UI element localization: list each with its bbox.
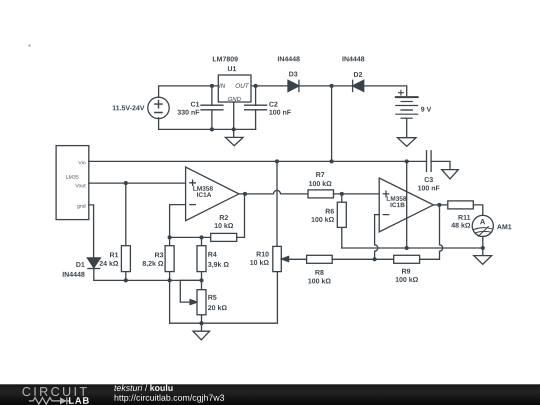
resistor R2 xyxy=(211,194,245,242)
junction R5 bottom xyxy=(199,321,203,325)
resistor R1 xyxy=(100,183,131,280)
diode D3 IN4448 xyxy=(278,56,300,91)
resistor R9 xyxy=(394,205,443,282)
wire Vin rail xyxy=(89,160,427,162)
junction C1 top xyxy=(210,84,214,88)
junction diodes node xyxy=(330,84,334,88)
wire op-amp supply vertical xyxy=(406,161,408,248)
junction supply down xyxy=(405,246,409,250)
ammeter AM1 xyxy=(472,215,511,236)
capacitor C2 xyxy=(245,86,291,129)
junction AM1 ground xyxy=(481,246,485,250)
junction C1 bottom xyxy=(210,127,214,131)
logo CIRCUIT xyxy=(22,387,86,396)
capacitor C3 xyxy=(418,151,439,191)
junction R4 top xyxy=(199,235,203,239)
junction rail op-amp supply xyxy=(405,159,409,163)
resistor R5 xyxy=(197,280,227,323)
wire battery to ground xyxy=(406,118,408,138)
wire bottom rail V1 to C2 xyxy=(159,118,256,130)
footer url xyxy=(115,394,225,402)
resistor R3 xyxy=(143,237,175,280)
potentiometer R5 wiper loop xyxy=(180,280,201,302)
resistor R7 xyxy=(308,172,379,198)
junction IC1B output xyxy=(437,203,441,207)
junction R3 top xyxy=(168,235,172,239)
junction IC1A output xyxy=(243,192,247,196)
wire IC1B inverting input down xyxy=(375,215,380,260)
ground bottom middle xyxy=(193,323,210,340)
wire U1 OUT to D3 xyxy=(251,85,288,87)
LM35 sensor box xyxy=(56,146,89,220)
ground under AM1 xyxy=(474,248,492,264)
junction R6 top xyxy=(340,192,344,196)
junction rail diodes xyxy=(330,159,334,163)
wire wiper to R8 xyxy=(289,258,307,260)
wire Vout to IC1A + input xyxy=(89,182,186,184)
junction R1 bottom xyxy=(124,278,128,282)
wire D1 to bottom wire xyxy=(93,269,95,281)
wire IC1B output xyxy=(433,204,447,206)
logo resistor-diode underline xyxy=(29,397,71,404)
resistor R10 potentiometer xyxy=(250,161,281,271)
junction rail to R10 xyxy=(275,159,279,163)
R5 wiper arrow xyxy=(190,300,197,305)
wire U1 GND lead xyxy=(233,102,235,129)
resistor R11 xyxy=(448,201,483,228)
battery 9V xyxy=(396,90,431,118)
wire V1 top to U1 xyxy=(159,86,219,98)
wire D3 to D2 xyxy=(299,85,353,87)
wire bottom left xyxy=(94,279,202,281)
resistor R6 xyxy=(312,194,347,248)
ground under battery xyxy=(398,138,417,147)
wire ground bus y248 with hops xyxy=(342,247,483,249)
diode D2 IN4448 xyxy=(342,56,364,91)
resistor R8 xyxy=(307,255,394,283)
op-amp U2 IC1A xyxy=(186,167,239,221)
resistor R4 xyxy=(197,237,229,280)
footer title xyxy=(114,385,172,391)
ground right of C3 xyxy=(442,170,459,179)
op-amp U3 IC1B xyxy=(379,178,433,232)
ground under U1 xyxy=(225,129,243,145)
junction C2 top xyxy=(254,84,258,88)
junction R4 bottom / R5 top xyxy=(199,278,203,282)
junction R3 bottom xyxy=(168,278,172,282)
regulator U1 LM7809 xyxy=(213,57,251,102)
logo LAB xyxy=(69,397,89,403)
capacitor C1 xyxy=(177,86,222,129)
wire LM35 gnd to D1 xyxy=(89,205,94,258)
diode D1 IN4448 xyxy=(63,258,101,277)
wire R3 node to R2 xyxy=(170,236,211,238)
wire R3 bottom down xyxy=(169,280,171,323)
wire D2 to battery xyxy=(364,86,407,96)
wire junction down to rail xyxy=(331,86,333,161)
R10 wiper arrow xyxy=(282,256,289,261)
voltage source V1 11.5V-24V xyxy=(113,97,170,118)
wire bottom second xyxy=(170,272,278,324)
wire AM1 to ground xyxy=(482,237,484,249)
wire C3 to ground xyxy=(431,161,450,169)
junction GND bottom xyxy=(232,127,236,131)
wire IC1A output with hop over R10 line xyxy=(239,190,308,193)
stray mark xyxy=(29,45,31,47)
junction R1 top xyxy=(124,181,128,185)
junction feedback node xyxy=(373,257,377,261)
wire IC1A inverting input to R3 node xyxy=(170,205,186,238)
